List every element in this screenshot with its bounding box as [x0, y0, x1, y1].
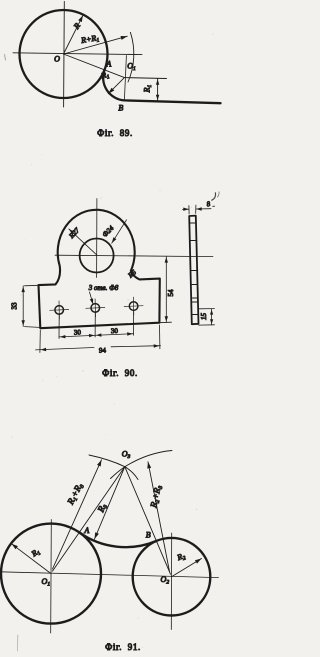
svg-text:3 отв. Ф8: 3 отв. Ф8	[88, 284, 119, 292]
radius arrow R1 from O1	[108, 78, 124, 94]
svg-text:B: B	[118, 104, 123, 113]
line O3 to O2	[125, 467, 171, 575]
svg-text:33: 33	[11, 302, 19, 310]
horizontal centerline through O1 O2	[0, 572, 219, 578]
circle O1 (R1)	[1, 524, 101, 624]
svg-text:30: 30	[74, 328, 82, 336]
speck left edge fig89	[5, 55, 6, 61]
svg-text:B: B	[146, 531, 151, 540]
extension line from O1 to the right	[124, 77, 166, 80]
vertical centerline O2	[170, 533, 172, 630]
baseline tangent line from B to right edge	[124, 100, 220, 103]
paper speckles	[12, 33, 214, 648]
paper background	[0, 0, 222, 657]
dimension line 30 + 30	[59, 334, 133, 337]
radius arrow R27	[69, 229, 97, 255]
radius arrow R3	[95, 467, 125, 539]
dimension line 94	[36, 346, 161, 350]
boss horizontal centerline (extends through side view)	[55, 255, 213, 256]
svg-text:O: O	[54, 55, 60, 64]
radius arrow R2	[172, 559, 202, 577]
radius arrow R2+R3	[148, 462, 170, 572]
radius arrow R+R1	[64, 36, 128, 54]
construction arc R2+R3 through O3	[111, 451, 173, 479]
horizontal centerline of O	[13, 53, 142, 55]
circle O (radius R)	[20, 10, 108, 98]
vertical centerline of O1	[124, 56, 126, 101]
page curl artifact top right	[212, 193, 216, 200]
svg-text:Фіг. 90.: Фіг. 90.	[102, 368, 138, 378]
radius arrow R	[64, 15, 83, 54]
radius arrow R1	[12, 544, 52, 574]
vertical centerline of O	[63, 2, 66, 108]
crosshair hole 3	[124, 297, 143, 315]
svg-text:15: 15	[200, 313, 208, 321]
construction arc R1+R3 through O3	[89, 455, 138, 480]
dimension 15 bottom right	[198, 309, 214, 326]
small hole 1	[55, 306, 64, 315]
svg-text:30: 30	[111, 327, 119, 335]
circle O2 (R2)	[133, 538, 211, 616]
boss vertical centerline	[96, 199, 98, 278]
svg-text:Фіг. 91.: Фіг. 91.	[105, 642, 141, 652]
side view strip outline	[189, 216, 198, 325]
radius arrow R1+R3	[53, 460, 102, 569]
line O3 to O1	[53, 467, 125, 571]
svg-text:A: A	[83, 526, 89, 535]
line O to O1 through tangent point A	[64, 54, 125, 78]
svg-text:A: A	[105, 59, 111, 68]
leader F24	[112, 220, 127, 243]
construction arc R+R1	[128, 32, 134, 82]
faint line bottom left fig91	[17, 635, 19, 651]
crosshair hole 2	[86, 299, 105, 317]
dimension 54 right	[159, 321, 171, 324]
big hole F24	[80, 239, 114, 273]
dimension 8 top	[189, 205, 196, 214]
fillet arc R1 from A to B	[103, 70, 124, 101]
extension lines for 94 dim	[40, 325, 160, 353]
dimension 33 left	[25, 285, 40, 327]
small hole 3	[129, 302, 138, 311]
connecting concave arc R3 from A to B	[79, 533, 156, 548]
crosshair hole 1	[50, 301, 69, 319]
dimension R1 vertical	[157, 78, 159, 100]
vertical centerline O1	[50, 520, 53, 634]
svg-text:Фіг. 89.: Фіг. 89.	[97, 128, 133, 138]
svg-text:54: 54	[167, 289, 175, 297]
hidden lines inside strip	[189, 223, 198, 315]
leader to middle hole	[90, 292, 94, 304]
small hole 2	[91, 304, 100, 313]
svg-text:94: 94	[99, 346, 107, 354]
extension lines for 30-30 dims	[59, 311, 134, 339]
plate outline with boss	[39, 210, 160, 328]
